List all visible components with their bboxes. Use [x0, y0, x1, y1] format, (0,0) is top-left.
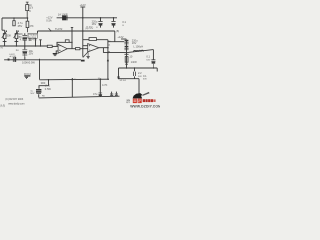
dark bar + switch lever bottom of fb vertical — [81, 52, 88, 61]
resistor R6 between stages — [76, 48, 80, 50]
svg-text:TL072: TL072 — [55, 27, 63, 31]
dark tick on x118.5 — [118, 76, 120, 78]
wire right main vertical x107.9 — [107, 40, 109, 79]
svg-text:63V: 63V — [146, 59, 150, 61]
wire opamp supply line y31.4 — [38, 31, 115, 33]
watermark logo black blob — [133, 92, 150, 99]
svg-text:WWW.DZDIY.COM: WWW.DZDIY.COM — [130, 104, 160, 108]
capacitor C15 electrolytic x38 — [36, 90, 41, 94]
svg-text:(8)+12V: (8)+12V — [85, 28, 93, 30]
capacitor C6 under rail x113.5 — [111, 22, 115, 25]
+12V terminal bar right — [121, 38, 126, 40]
svg-text:0.5A: 0.5A — [46, 18, 52, 22]
capacitor C4 series on bottom-left line — [13, 57, 15, 62]
wire right output rail y68 — [119, 68, 158, 72]
svg-text:凡作: 凡作 — [0, 104, 5, 108]
wire top-left rail — [2, 17, 28, 19]
wire zobel chain x126.5 — [126, 40, 128, 69]
wire bottom ground line — [39, 96, 120, 98]
svg-text:www.dzdiy.com: www.dzdiy.com — [8, 102, 24, 105]
svg-text:IN 4558: IN 4558 — [29, 37, 37, 39]
wire bottom cap stub x100.3 — [99, 79, 101, 96]
wire output tap vertical x103.4 — [102, 48, 104, 53]
svg-text:uF 630: uF 630 — [9, 56, 17, 58]
potentiometer VR2 — [14, 30, 19, 38]
wire signal line y46 — [0, 45, 47, 47]
zobel plates below junction — [124, 53, 128, 55]
svg-text:25V: 25V — [18, 24, 23, 28]
resistor R7 opamp2 feedback — [89, 38, 96, 41]
svg-text:100K/0.5W: 100K/0.5W — [22, 60, 35, 64]
svg-text:50V: 50V — [138, 76, 142, 78]
svg-text:50V: 50V — [30, 93, 34, 95]
pin tick x107.9 upper — [108, 45, 109, 52]
box B1 label block — [28, 33, 37, 38]
wire stub x40.5 — [39, 40, 41, 46]
arrow head on vertical x107.9 — [107, 58, 109, 62]
capacitor C1 electrolytic column x24.8 upper — [22, 36, 27, 41]
capacitor C7 opamp1 gnd — [53, 54, 58, 56]
wire pot2 bottom lead — [15, 39, 19, 46]
capacitor C8 electrolytic x126.5 top — [124, 41, 128, 44]
wire opamp1 output — [67, 48, 88, 50]
wire speaker line — [103, 50, 153, 53]
+12V terminal bar x83 — [80, 6, 85, 8]
wire vertical x39.5 — [39, 59, 41, 80]
op-amp U1B triangle — [88, 44, 99, 52]
svg-text:+12V: +12V — [117, 35, 123, 39]
svg-text:4.7u: 4.7u — [20, 37, 26, 41]
capacitor C2 electrolytic column x24.8 lower — [22, 50, 27, 60]
wire left vertical — [2, 18, 5, 30]
capacitor C14 bottom x118.3 — [115, 93, 118, 95]
watermark red row1 small chars — [143, 99, 156, 102]
svg-text:50K: 50K — [7, 33, 12, 37]
wire right lower rail y79 — [118, 79, 139, 94]
wire stub below bus x48.5 — [48, 80, 50, 86]
wire cap column x24.8 — [24, 33, 26, 60]
wire 2.2 cap hang x135 — [134, 68, 136, 79]
capacitor C12 bottom x100.3 — [99, 93, 103, 96]
resistor R8 zobel 10ohm — [125, 57, 128, 63]
wire opamp2 fb top — [83, 39, 108, 41]
resistor R5 opamp1 feedback — [65, 40, 69, 43]
capacitor C11 2.2 between rails — [133, 72, 135, 76]
capacitor C10 far right x153 — [151, 60, 155, 68]
svg-text:R=0.6: R=0.6 — [24, 72, 32, 76]
svg-text:(C) DZ DIY 2003: (C) DZ DIY 2003 — [5, 98, 23, 101]
wire +12V terminal stub x83 — [82, 7, 84, 57]
potentiometer VR1 — [2, 30, 7, 38]
svg-text:47K: 47K — [29, 25, 34, 28]
resistor R2 below rail at x14 — [13, 18, 15, 26]
wire vertical x71.5 — [71, 78, 73, 97]
wire corner into bottom cap — [39, 86, 49, 98]
svg-text:SP 4-8: SP 4-8 — [120, 80, 127, 82]
svg-text:0.1: 0.1 — [146, 54, 150, 58]
resistor R3 x27.5 below rail — [26, 18, 29, 32]
tick below R8 — [125, 63, 128, 65]
wire opamp1 minus to cap — [56, 51, 58, 53]
svg-text:0.1: 0.1 — [143, 74, 147, 78]
terminal blob on line x7 — [8, 59, 10, 61]
wire y41.7 to cap chain — [108, 41, 124, 43]
wire top cap stub x100.5 — [100, 18, 102, 28]
pin tick diagonal x52 on supply line — [49, 28, 52, 31]
svg-text:0.5W: 0.5W — [45, 87, 52, 91]
resistor R1 top column — [26, 2, 29, 18]
svg-text:+12V: +12V — [80, 3, 86, 7]
svg-text:L 100uH: L 100uH — [133, 45, 143, 49]
capacitor C13 bottom x113.6 — [110, 93, 113, 95]
wire opamp1 fb vertical x72 — [71, 28, 73, 49]
svg-text:25V: 25V — [29, 52, 34, 56]
capacitor C9 electrolytic x126.5 mid — [124, 47, 128, 50]
svg-text:16V: 16V — [132, 41, 137, 45]
wire vertical x153 coil to cap — [152, 50, 154, 60]
inductor L1 coil on speaker line — [133, 50, 143, 52]
capacitor C3 bars x30 on input path — [29, 38, 31, 41]
svg-text:63V: 63V — [143, 78, 147, 80]
svg-text:1A 100P: 1A 100P — [58, 12, 68, 16]
wire mid ground bus — [40, 78, 109, 81]
wire opamp2 output — [99, 47, 108, 49]
svg-text:4.7K: 4.7K — [102, 83, 108, 87]
wire vertical x118.5 — [118, 68, 120, 79]
ground symbol left x24.8 — [24, 76, 30, 79]
wire pot1 bottom lead — [3, 39, 7, 46]
svg-text:K: K — [29, 9, 31, 13]
resistor R4 opamp1 input — [47, 45, 52, 47]
wire opamp1 feedback loop — [57, 42, 72, 46]
svg-text:47u: 47u — [93, 92, 98, 96]
op-amp U1A triangle — [58, 44, 67, 53]
svg-text:2.2: 2.2 — [138, 71, 142, 75]
wire opamp1 input — [52, 45, 58, 47]
wire top cap stub x113.5 — [113, 18, 115, 28]
wire +12V top rail — [57, 17, 117, 19]
wire bottom cap stub x118.3 — [115, 92, 117, 97]
capacitor C5 under rail x100.5 — [98, 22, 102, 25]
text labels (tiny) — [0, 3, 151, 108]
wire bottom cap stub x113.6 — [111, 92, 113, 97]
watermark red row1 big chars — [133, 99, 142, 104]
svg-text:(8): (8) — [116, 29, 119, 33]
wire box B1 lead down — [35, 38, 37, 46]
ground symbol opamp2 — [86, 52, 89, 58]
wire opamp2 minus — [83, 45, 88, 47]
diode D1 on +12V rail — [62, 15, 67, 20]
wire corner x114.8 down — [114, 31, 116, 42]
wire bottom-left signal line — [4, 59, 81, 61]
svg-text:16V: 16V — [92, 22, 97, 26]
svg-text:1/2W: 1/2W — [131, 60, 138, 64]
junction dots — [13, 17, 154, 80]
